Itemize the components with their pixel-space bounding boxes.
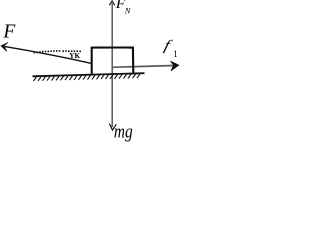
ground surface line <box>33 73 145 76</box>
dotted watermark row above force line <box>34 50 81 53</box>
arrowhead of normal force F_N (up) <box>110 1 115 5</box>
svg-text:mg: mg <box>114 120 133 142</box>
ground hatching <box>34 74 141 81</box>
svg-text:1: 1 <box>173 49 178 59</box>
svg-text:YK: YK <box>69 52 80 60</box>
wire: horizontal friction axis line <box>112 66 174 68</box>
arrowhead of friction f1 (right) <box>171 61 179 71</box>
wire: vertical axis line (normal/weight axis) <box>111 3 113 127</box>
wire: applied force F line (up-left) <box>1 46 91 64</box>
svg-text:F: F <box>2 21 16 42</box>
arrowhead of weight mg (down) <box>110 124 116 130</box>
block (rectangle on ground, open at bottom) <box>92 48 134 75</box>
arrowhead of force F (up-left) <box>1 43 8 52</box>
